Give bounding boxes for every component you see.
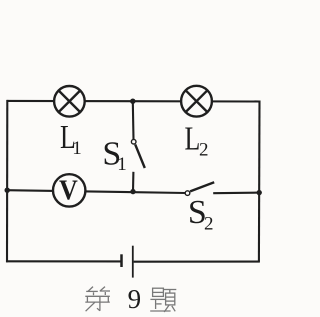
switch S2 (185, 182, 214, 195)
svg-text:2: 2 (204, 214, 214, 235)
voltmeter V (53, 174, 85, 206)
wire top (7, 100, 259, 103)
svg-text:2: 2 (199, 140, 209, 161)
caption: 第 (drawn) (85, 287, 110, 312)
svg-text:1: 1 (117, 154, 127, 175)
junction node middle (130, 189, 135, 194)
wire bottom-right (134, 261, 260, 263)
wire S1 upper stub (132, 101, 135, 139)
caption: 题 (drawn) (150, 288, 176, 312)
wire right (258, 101, 261, 263)
lamp L1 (54, 86, 85, 117)
wire left (6, 100, 8, 262)
svg-text:9: 9 (128, 284, 142, 314)
junction node top (130, 99, 135, 104)
battery (122, 246, 133, 278)
svg-text:V: V (59, 175, 78, 206)
lamp L2 (181, 86, 212, 117)
switch S1 (131, 139, 144, 168)
wire middle-right (213, 192, 259, 195)
wire S1 lower stub (132, 172, 134, 192)
wire middle-left (7, 190, 186, 193)
wire bottom-left (6, 260, 121, 262)
svg-text:L: L (185, 119, 201, 157)
junction node right (257, 190, 262, 195)
svg-text:1: 1 (72, 138, 82, 159)
junction node left (5, 188, 10, 193)
